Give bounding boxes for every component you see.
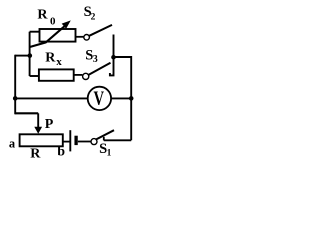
svg-text:2: 2: [91, 12, 96, 22]
svg-text:R: R: [45, 51, 56, 66]
svg-text:a: a: [9, 137, 16, 151]
svg-text:V: V: [94, 86, 105, 109]
svg-text:R: R: [30, 147, 41, 162]
svg-text:b: b: [57, 145, 65, 160]
svg-text:1: 1: [107, 149, 112, 159]
svg-text:P: P: [45, 117, 54, 132]
svg-text:0: 0: [50, 15, 56, 27]
svg-text:x: x: [56, 56, 62, 68]
svg-text:3: 3: [93, 54, 98, 65]
svg-text:R: R: [37, 8, 48, 23]
